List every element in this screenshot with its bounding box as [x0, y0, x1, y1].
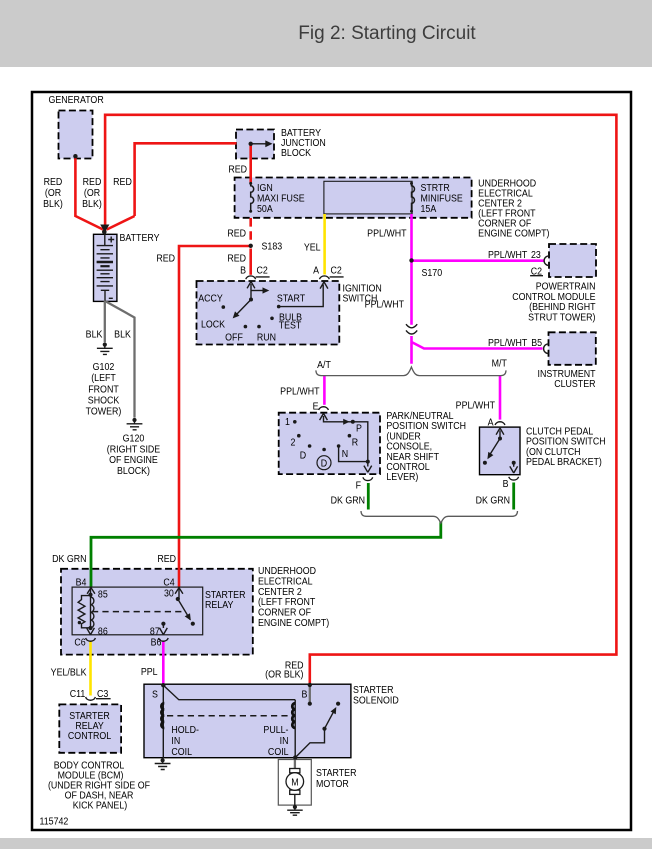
svg-text:RED: RED: [227, 253, 246, 265]
svg-text:CLUSTER: CLUSTER: [554, 378, 595, 390]
svg-text:115742: 115742: [39, 816, 68, 828]
svg-text:(OR BLK): (OR BLK): [265, 669, 303, 681]
svg-text:START: START: [277, 293, 305, 305]
svg-text:B: B: [240, 265, 246, 277]
svg-text:S170: S170: [421, 267, 442, 279]
svg-text:ENGINE COMPT): ENGINE COMPT): [478, 228, 549, 240]
svg-text:ACCY: ACCY: [198, 293, 223, 305]
svg-text:LEVER): LEVER): [386, 472, 418, 484]
svg-text:(LEFT: (LEFT: [91, 372, 116, 384]
svg-text:YEL/BLK: YEL/BLK: [51, 667, 87, 679]
svg-text:LOCK: LOCK: [201, 319, 226, 331]
svg-text:DK GRN: DK GRN: [476, 495, 510, 507]
svg-text:S: S: [152, 689, 158, 701]
svg-text:85: 85: [98, 589, 108, 601]
svg-text:E: E: [313, 401, 319, 413]
svg-text:BLOCK): BLOCK): [117, 465, 150, 477]
svg-text:C2: C2: [256, 265, 267, 277]
svg-text:C11: C11: [70, 688, 86, 700]
svg-text:A: A: [488, 417, 494, 429]
svg-text:PPL/WHT: PPL/WHT: [488, 249, 527, 261]
svg-text:B: B: [302, 689, 308, 701]
svg-text:PPL: PPL: [141, 666, 158, 678]
svg-text:STRUT TOWER): STRUT TOWER): [528, 312, 595, 324]
svg-text:1: 1: [285, 416, 290, 428]
svg-text:BLK): BLK): [43, 198, 63, 210]
svg-text:SOLENOID: SOLENOID: [353, 695, 399, 707]
svg-text:GENERATOR: GENERATOR: [48, 94, 103, 106]
svg-text:2: 2: [291, 437, 296, 449]
svg-text:OFF: OFF: [225, 332, 243, 344]
svg-text:23: 23: [531, 249, 541, 261]
svg-text:PPL/WHT: PPL/WHT: [488, 337, 527, 349]
svg-text:TOWER): TOWER): [86, 406, 122, 418]
svg-text:15A: 15A: [420, 203, 436, 215]
svg-text:C3: C3: [97, 688, 108, 700]
svg-text:COIL: COIL: [171, 746, 192, 758]
svg-text:PPL/WHT: PPL/WHT: [456, 400, 495, 412]
svg-text:RELAY: RELAY: [205, 600, 234, 612]
svg-text:C2: C2: [531, 266, 542, 278]
svg-text:RED: RED: [157, 553, 176, 565]
svg-text:PPL/WHT: PPL/WHT: [367, 228, 406, 240]
svg-text:D: D: [300, 450, 306, 462]
svg-text:N: N: [342, 448, 348, 460]
svg-text:DK GRN: DK GRN: [331, 495, 365, 507]
svg-text:RED: RED: [113, 176, 132, 188]
svg-text:TEST: TEST: [279, 320, 302, 332]
svg-text:RED: RED: [227, 228, 246, 240]
svg-text:KICK PANEL): KICK PANEL): [73, 800, 127, 812]
svg-text:DK GRN: DK GRN: [52, 553, 86, 565]
svg-text:50A: 50A: [257, 203, 273, 215]
svg-text:ENGINE COMPT): ENGINE COMPT): [258, 617, 329, 629]
svg-text:BLK: BLK: [114, 329, 131, 341]
svg-text:PPL/WHT: PPL/WHT: [365, 299, 404, 311]
svg-text:RUN: RUN: [257, 332, 276, 344]
svg-text:BATTERY: BATTERY: [119, 232, 160, 244]
svg-text:D: D: [321, 458, 327, 470]
svg-text:P: P: [356, 423, 362, 435]
svg-text:RED: RED: [228, 164, 247, 176]
svg-text:B: B: [503, 478, 509, 490]
svg-text:COIL: COIL: [268, 746, 289, 758]
svg-text:R: R: [352, 437, 358, 449]
svg-text:B6: B6: [151, 637, 162, 649]
svg-text:YEL: YEL: [304, 242, 321, 254]
svg-text:Fig 2: Starting Circuit: Fig 2: Starting Circuit: [298, 23, 476, 44]
svg-text:PPL/WHT: PPL/WHT: [280, 386, 319, 398]
svg-text:B5: B5: [531, 337, 542, 349]
svg-text:BLOCK: BLOCK: [281, 147, 312, 159]
svg-text:F: F: [356, 480, 362, 492]
svg-text:A/T: A/T: [317, 359, 331, 371]
svg-text:86: 86: [98, 626, 108, 638]
svg-text:RED: RED: [156, 253, 175, 265]
svg-text:S183: S183: [262, 241, 283, 253]
svg-text:C2: C2: [331, 265, 342, 277]
svg-text:MOTOR: MOTOR: [316, 778, 349, 790]
svg-text:PEDAL BRACKET): PEDAL BRACKET): [526, 457, 602, 469]
svg-text:C6: C6: [74, 637, 85, 649]
svg-text:CONTROL: CONTROL: [68, 730, 112, 742]
svg-text:30: 30: [164, 588, 174, 600]
svg-text:BLK: BLK: [86, 329, 103, 341]
svg-text:BLK): BLK): [82, 198, 102, 210]
svg-text:A: A: [313, 265, 319, 277]
svg-text:M: M: [291, 777, 298, 789]
svg-text:B4: B4: [76, 577, 87, 589]
svg-text:M/T: M/T: [492, 358, 507, 370]
